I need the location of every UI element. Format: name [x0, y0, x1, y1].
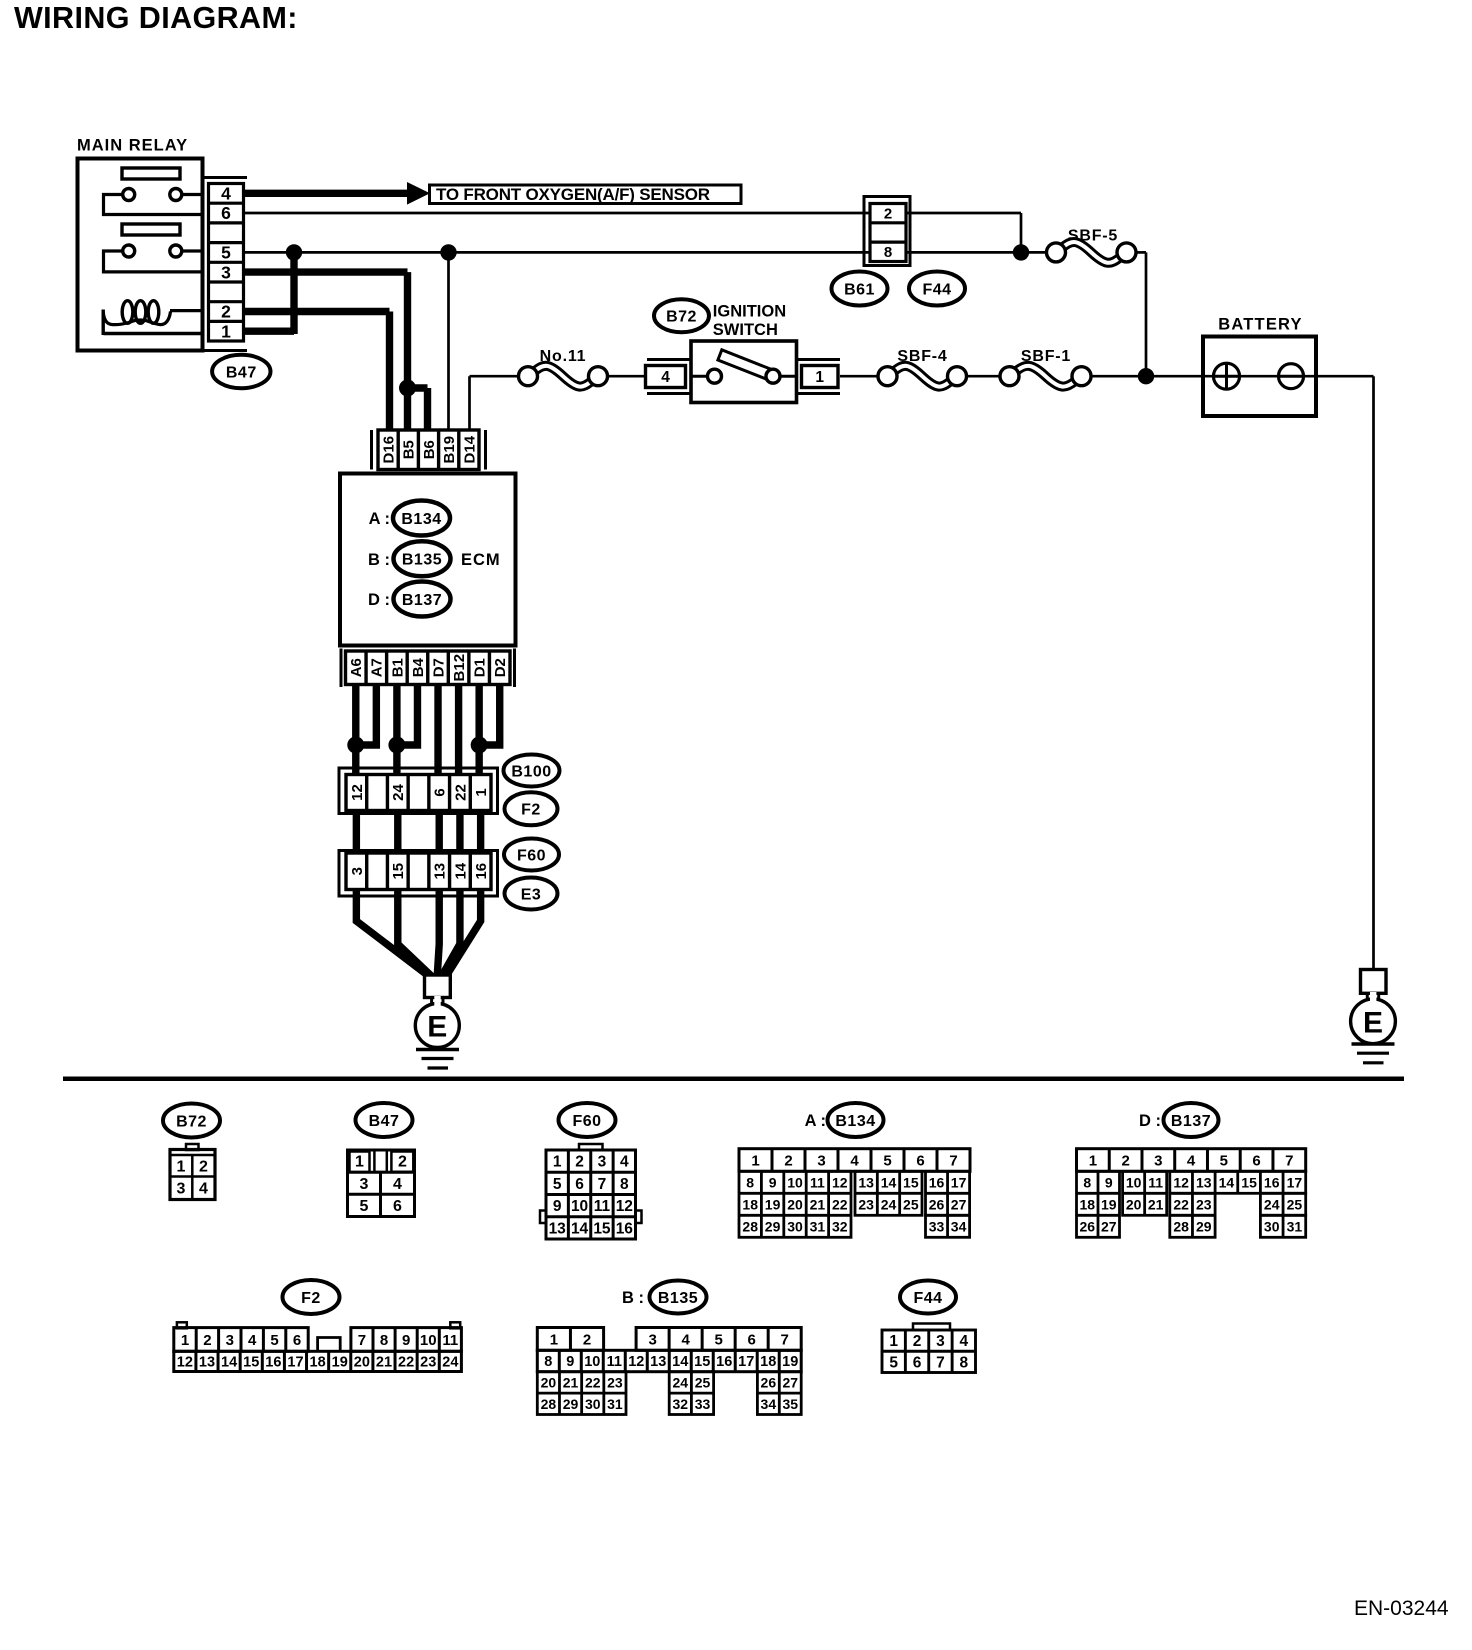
- svg-text:15: 15: [390, 863, 407, 880]
- svg-text:2: 2: [398, 1154, 407, 1171]
- svg-text:7: 7: [936, 1354, 945, 1371]
- svg-text:33: 33: [929, 1218, 945, 1234]
- svg-text:20: 20: [541, 1374, 557, 1390]
- svg-text:ECM: ECM: [461, 551, 501, 569]
- svg-text:9: 9: [402, 1332, 410, 1349]
- svg-text:9: 9: [553, 1198, 562, 1215]
- svg-text:1: 1: [181, 1332, 189, 1349]
- svg-text:F44: F44: [913, 1290, 942, 1307]
- svg-text:22: 22: [832, 1196, 848, 1212]
- svg-text:5: 5: [553, 1176, 562, 1193]
- svg-text:D7: D7: [430, 658, 447, 677]
- svg-text:16: 16: [616, 1220, 634, 1237]
- svg-text:B135: B135: [402, 552, 442, 569]
- svg-text:A6: A6: [348, 658, 365, 677]
- svg-text:28: 28: [742, 1218, 758, 1234]
- svg-text:6: 6: [393, 1198, 402, 1215]
- svg-text:14: 14: [881, 1174, 897, 1190]
- svg-text:17: 17: [287, 1355, 303, 1371]
- svg-text:8: 8: [746, 1174, 754, 1190]
- svg-text:21: 21: [563, 1374, 579, 1390]
- svg-text:3: 3: [598, 1154, 607, 1171]
- svg-text:13: 13: [432, 863, 449, 880]
- svg-text:29: 29: [765, 1218, 781, 1234]
- svg-text:B72: B72: [176, 1113, 207, 1130]
- svg-text:3: 3: [177, 1181, 186, 1198]
- svg-text:B47: B47: [226, 364, 257, 381]
- svg-text:4: 4: [681, 1331, 690, 1348]
- svg-text:21: 21: [810, 1196, 826, 1212]
- svg-text:2: 2: [221, 302, 231, 322]
- svg-text:B47: B47: [369, 1113, 400, 1130]
- svg-text:F2: F2: [301, 1290, 321, 1307]
- svg-text:4: 4: [960, 1333, 969, 1350]
- svg-text:2: 2: [199, 1159, 208, 1176]
- svg-text:A7: A7: [369, 658, 386, 677]
- svg-text:7: 7: [598, 1176, 607, 1193]
- svg-text:4: 4: [1187, 1152, 1196, 1169]
- svg-text:24: 24: [881, 1196, 897, 1212]
- svg-text:23: 23: [607, 1374, 623, 1390]
- svg-text:D :: D :: [1139, 1112, 1161, 1130]
- svg-text:23: 23: [1196, 1196, 1212, 1212]
- svg-text:27: 27: [782, 1374, 798, 1390]
- svg-text:2: 2: [583, 1331, 591, 1348]
- svg-text:8: 8: [1083, 1174, 1091, 1190]
- svg-text:10: 10: [1126, 1174, 1142, 1190]
- svg-text:21: 21: [376, 1355, 392, 1371]
- svg-text:2: 2: [575, 1154, 584, 1171]
- svg-text:16: 16: [265, 1355, 281, 1371]
- svg-text:32: 32: [832, 1218, 848, 1234]
- svg-text:26: 26: [761, 1374, 777, 1390]
- svg-text:B6: B6: [421, 440, 438, 459]
- svg-text:16: 16: [1264, 1174, 1280, 1190]
- svg-text:11: 11: [810, 1174, 825, 1190]
- svg-text:13: 13: [199, 1355, 215, 1371]
- svg-text:A :: A :: [369, 510, 390, 528]
- svg-text:3: 3: [349, 867, 366, 875]
- svg-text:32: 32: [673, 1396, 689, 1412]
- svg-text:3: 3: [648, 1331, 656, 1348]
- svg-text:1: 1: [553, 1154, 562, 1171]
- svg-text:B134: B134: [401, 511, 441, 528]
- svg-text:1: 1: [751, 1152, 759, 1169]
- svg-text:EN-03244: EN-03244: [1354, 1597, 1449, 1620]
- svg-text:B :: B :: [622, 1289, 644, 1307]
- svg-text:13: 13: [650, 1354, 666, 1370]
- svg-text:25: 25: [903, 1196, 919, 1212]
- svg-text:34: 34: [951, 1218, 967, 1234]
- svg-text:1: 1: [889, 1333, 898, 1350]
- svg-text:6: 6: [432, 788, 449, 796]
- svg-text:35: 35: [782, 1396, 798, 1412]
- svg-text:2: 2: [913, 1333, 922, 1350]
- svg-text:31: 31: [1287, 1218, 1303, 1234]
- svg-text:28: 28: [1173, 1218, 1189, 1234]
- svg-text:B137: B137: [402, 592, 442, 609]
- svg-text:13: 13: [549, 1220, 567, 1237]
- svg-text:E3: E3: [521, 886, 542, 903]
- svg-text:16: 16: [473, 863, 490, 880]
- svg-text:34: 34: [761, 1396, 777, 1412]
- svg-text:2: 2: [203, 1332, 211, 1349]
- svg-text:30: 30: [1264, 1218, 1280, 1234]
- svg-text:22: 22: [585, 1374, 601, 1390]
- svg-text:28: 28: [541, 1396, 557, 1412]
- svg-text:29: 29: [1196, 1218, 1212, 1234]
- svg-text:12: 12: [349, 784, 366, 801]
- svg-text:18: 18: [760, 1354, 776, 1370]
- svg-text:3: 3: [360, 1176, 369, 1193]
- svg-text:1: 1: [177, 1159, 186, 1176]
- svg-text:25: 25: [1287, 1196, 1303, 1212]
- svg-text:9: 9: [769, 1174, 777, 1190]
- svg-text:17: 17: [951, 1174, 967, 1190]
- svg-text:10: 10: [787, 1174, 803, 1190]
- svg-text:14: 14: [221, 1355, 237, 1371]
- svg-text:6: 6: [293, 1332, 301, 1349]
- svg-text:D16: D16: [381, 436, 398, 464]
- svg-text:16: 16: [929, 1174, 945, 1190]
- svg-text:15: 15: [243, 1355, 259, 1371]
- svg-text:WIRING DIAGRAM:: WIRING DIAGRAM:: [14, 1, 298, 35]
- svg-text:5: 5: [714, 1331, 722, 1348]
- svg-text:4: 4: [620, 1154, 629, 1171]
- svg-text:13: 13: [1196, 1174, 1212, 1190]
- svg-text:12: 12: [616, 1198, 633, 1215]
- svg-text:14: 14: [672, 1354, 688, 1370]
- svg-text:1: 1: [221, 321, 231, 341]
- svg-text:21: 21: [1148, 1196, 1164, 1212]
- svg-text:4: 4: [199, 1181, 208, 1198]
- svg-text:1: 1: [815, 369, 824, 386]
- svg-text:E: E: [427, 1011, 447, 1044]
- svg-text:30: 30: [585, 1396, 601, 1412]
- svg-text:B61: B61: [844, 281, 875, 298]
- svg-text:23: 23: [420, 1355, 436, 1371]
- svg-text:6: 6: [916, 1152, 924, 1169]
- svg-text:31: 31: [607, 1396, 623, 1412]
- svg-text:11: 11: [1148, 1174, 1163, 1190]
- svg-text:14: 14: [1219, 1174, 1235, 1190]
- svg-text:24: 24: [442, 1355, 458, 1371]
- svg-text:B5: B5: [401, 440, 418, 459]
- svg-text:19: 19: [1101, 1196, 1117, 1212]
- svg-text:8: 8: [380, 1332, 388, 1349]
- svg-text:26: 26: [929, 1196, 945, 1212]
- svg-text:26: 26: [1079, 1218, 1095, 1234]
- svg-text:D :: D :: [368, 591, 390, 609]
- svg-text:27: 27: [951, 1196, 967, 1212]
- svg-text:B137: B137: [1171, 1113, 1211, 1130]
- svg-text:12: 12: [1173, 1174, 1189, 1190]
- svg-text:20: 20: [1126, 1196, 1142, 1212]
- svg-text:23: 23: [858, 1196, 874, 1212]
- svg-text:3: 3: [226, 1332, 234, 1349]
- svg-text:12: 12: [628, 1354, 644, 1370]
- svg-text:19: 19: [765, 1196, 781, 1212]
- svg-text:9: 9: [1105, 1174, 1113, 1190]
- svg-text:11: 11: [442, 1332, 458, 1349]
- svg-text:3: 3: [936, 1333, 945, 1350]
- svg-text:10: 10: [420, 1332, 437, 1349]
- svg-text:17: 17: [738, 1354, 754, 1370]
- svg-text:7: 7: [781, 1331, 789, 1348]
- svg-text:3: 3: [817, 1152, 825, 1169]
- svg-text:12: 12: [832, 1174, 848, 1190]
- svg-text:3: 3: [1154, 1152, 1162, 1169]
- svg-text:29: 29: [563, 1396, 579, 1412]
- svg-text:B :: B :: [368, 551, 390, 569]
- svg-text:15: 15: [593, 1220, 611, 1237]
- svg-text:B72: B72: [666, 309, 697, 326]
- svg-text:D14: D14: [461, 435, 478, 463]
- svg-text:24: 24: [1264, 1196, 1280, 1212]
- svg-text:19: 19: [782, 1354, 798, 1370]
- svg-text:B100: B100: [511, 763, 551, 780]
- svg-text:4: 4: [221, 184, 231, 204]
- svg-text:A :: A :: [805, 1112, 826, 1130]
- svg-text:IGNITION: IGNITION: [713, 303, 786, 321]
- svg-text:8: 8: [620, 1176, 629, 1193]
- svg-text:18: 18: [1079, 1196, 1095, 1212]
- svg-text:24: 24: [390, 784, 407, 801]
- svg-text:20: 20: [787, 1196, 803, 1212]
- svg-text:30: 30: [787, 1218, 803, 1234]
- svg-text:B4: B4: [410, 657, 427, 677]
- svg-text:6: 6: [1252, 1152, 1260, 1169]
- svg-text:D2: D2: [492, 658, 509, 677]
- svg-text:6: 6: [747, 1331, 755, 1348]
- svg-text:3: 3: [221, 262, 231, 282]
- svg-text:19: 19: [332, 1355, 348, 1371]
- svg-text:6: 6: [575, 1176, 584, 1193]
- svg-text:5: 5: [270, 1332, 278, 1349]
- svg-text:18: 18: [742, 1196, 758, 1212]
- svg-text:5: 5: [883, 1152, 891, 1169]
- svg-text:1: 1: [1089, 1152, 1097, 1169]
- svg-text:MAIN RELAY: MAIN RELAY: [77, 137, 188, 155]
- svg-text:11: 11: [607, 1354, 622, 1370]
- svg-text:E: E: [1363, 1006, 1383, 1039]
- svg-text:27: 27: [1101, 1218, 1117, 1234]
- svg-text:25: 25: [695, 1374, 711, 1390]
- svg-text:31: 31: [810, 1218, 826, 1234]
- svg-text:4: 4: [661, 369, 670, 386]
- svg-text:4: 4: [248, 1332, 257, 1349]
- svg-text:5: 5: [889, 1354, 898, 1371]
- svg-text:4: 4: [393, 1176, 402, 1193]
- svg-text:13: 13: [858, 1174, 874, 1190]
- svg-text:8: 8: [960, 1354, 969, 1371]
- svg-text:8: 8: [884, 244, 892, 261]
- svg-text:5: 5: [360, 1198, 369, 1215]
- svg-text:14: 14: [571, 1220, 589, 1237]
- svg-text:SWITCH: SWITCH: [713, 321, 778, 339]
- svg-text:6: 6: [913, 1354, 922, 1371]
- svg-text:6: 6: [221, 203, 231, 223]
- svg-text:TO FRONT OXYGEN(A/F) SENSOR: TO FRONT OXYGEN(A/F) SENSOR: [436, 185, 710, 204]
- svg-text:1: 1: [355, 1154, 364, 1171]
- svg-text:B1: B1: [389, 658, 406, 677]
- svg-text:F60: F60: [517, 847, 546, 864]
- svg-text:B19: B19: [441, 436, 458, 464]
- svg-text:5: 5: [221, 243, 231, 263]
- svg-text:D1: D1: [472, 658, 489, 677]
- svg-text:11: 11: [594, 1198, 611, 1215]
- svg-text:B12: B12: [451, 654, 468, 682]
- svg-text:20: 20: [354, 1355, 370, 1371]
- svg-text:14: 14: [452, 862, 469, 879]
- svg-text:8: 8: [544, 1354, 552, 1370]
- svg-text:16: 16: [716, 1354, 732, 1370]
- svg-text:18: 18: [310, 1355, 326, 1371]
- svg-text:2: 2: [784, 1152, 792, 1169]
- svg-text:5: 5: [1220, 1152, 1228, 1169]
- svg-text:2: 2: [1121, 1152, 1129, 1169]
- svg-text:2: 2: [884, 206, 892, 223]
- svg-text:B135: B135: [658, 1290, 698, 1307]
- svg-text:F44: F44: [922, 281, 951, 298]
- svg-text:33: 33: [695, 1396, 711, 1412]
- svg-text:24: 24: [673, 1374, 689, 1390]
- svg-text:7: 7: [949, 1152, 957, 1169]
- svg-text:22: 22: [1173, 1196, 1189, 1212]
- svg-text:10: 10: [584, 1354, 600, 1370]
- svg-text:4: 4: [850, 1152, 859, 1169]
- svg-text:17: 17: [1287, 1174, 1303, 1190]
- svg-text:BATTERY: BATTERY: [1218, 316, 1302, 334]
- svg-text:12: 12: [177, 1355, 193, 1371]
- svg-text:22: 22: [452, 784, 469, 801]
- svg-text:15: 15: [903, 1174, 919, 1190]
- svg-text:15: 15: [694, 1354, 710, 1370]
- svg-text:15: 15: [1241, 1174, 1257, 1190]
- svg-text:B134: B134: [835, 1113, 875, 1130]
- svg-text:7: 7: [1285, 1152, 1293, 1169]
- svg-text:F2: F2: [521, 802, 541, 819]
- svg-text:1: 1: [473, 788, 490, 796]
- svg-text:7: 7: [358, 1332, 366, 1349]
- svg-text:10: 10: [571, 1198, 588, 1215]
- svg-text:1: 1: [550, 1331, 558, 1348]
- svg-text:22: 22: [398, 1355, 414, 1371]
- svg-text:F60: F60: [572, 1113, 601, 1130]
- svg-text:9: 9: [566, 1354, 574, 1370]
